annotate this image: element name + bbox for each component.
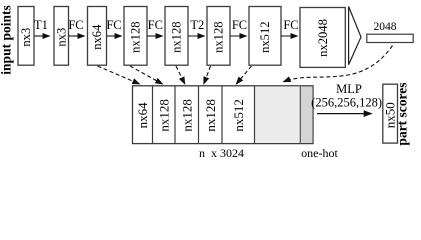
divider 2 (174, 86, 176, 144)
divider 4 (221, 86, 223, 144)
arrow FC (2-3) (68, 18, 84, 36)
svg-text:nx128: nx128 (203, 99, 218, 131)
arrow T2 (5-6) (188, 18, 204, 36)
svg-text:FC: FC (148, 18, 163, 32)
box nx3 (1) (18, 7, 34, 66)
box nx3 (2) (54, 7, 69, 66)
dashed skip arrow from nx128 (6) (204, 66, 211, 84)
svg-text:T2: T2 (190, 18, 204, 32)
svg-text:nx64: nx64 (90, 24, 104, 50)
svg-text:part scores: part scores (394, 82, 409, 145)
box nx2048 (300, 8, 345, 68)
divider 3 (198, 86, 200, 144)
svg-text:FC: FC (232, 18, 247, 32)
maxpool triangle (349, 7, 361, 65)
dashed skip arrow from nx128 (4) (130, 66, 163, 84)
svg-text:nx128: nx128 (179, 99, 194, 131)
svg-text:2048: 2048 (374, 21, 397, 33)
svg-text:(256,256,128): (256,256,128) (311, 95, 382, 109)
svg-text:nx512: nx512 (258, 21, 272, 52)
svg-text:FC: FC (283, 18, 298, 32)
svg-text:nx128: nx128 (156, 99, 171, 131)
svg-text:nx512: nx512 (231, 99, 246, 131)
arrow FC (4-5) (147, 18, 163, 36)
svg-text:nx3: nx3 (19, 28, 33, 47)
box nx64 (88, 7, 107, 66)
svg-text:FC: FC (106, 18, 121, 32)
svg-text:nx128: nx128 (129, 21, 143, 52)
output box nx50 (383, 84, 398, 143)
divider 1 (152, 86, 154, 144)
svg-text:nx64: nx64 (135, 102, 150, 128)
dashed skip arrow from nx128 (5) (176, 66, 185, 84)
svg-text:T1: T1 (34, 18, 48, 32)
box nx128 (5) (165, 7, 188, 66)
svg-text:one-hot: one-hot (301, 146, 338, 160)
svg-text:nx2048: nx2048 (316, 19, 330, 57)
svg-text:input points: input points (0, 5, 14, 74)
light gray expansion region (255, 86, 301, 143)
dashed skip arrow from nx64 (98, 66, 140, 84)
svg-text:MLP: MLP (336, 82, 362, 96)
svg-text:nx128: nx128 (170, 21, 184, 52)
arrow FC (3-4) (106, 18, 121, 36)
dashed skip arrow from nx512 (236, 66, 251, 84)
solid arrow MLP (317, 113, 372, 115)
arrow FC (6-7) (230, 18, 247, 36)
global feature thin box 2048 (367, 21, 413, 43)
divider 6 one-hot edge (299, 86, 301, 144)
arrow T1 (34, 18, 49, 36)
svg-text:nx3: nx3 (55, 28, 69, 47)
svg-text:FC: FC (68, 18, 83, 32)
box nx128 (6) (207, 7, 230, 66)
divider 5 gray edge (254, 86, 256, 144)
arrow FC (7-8) (281, 18, 298, 36)
svg-text:n x 3024: n x 3024 (199, 146, 244, 160)
box nx512 (249, 7, 281, 66)
svg-text:nx128: nx128 (212, 21, 226, 52)
one-hot dark gray strip (300, 86, 312, 143)
concatenated per-point feature box (133, 86, 314, 144)
dashed curve from global feature 2048 (284, 46, 393, 82)
box nx128 (4) (124, 7, 147, 66)
